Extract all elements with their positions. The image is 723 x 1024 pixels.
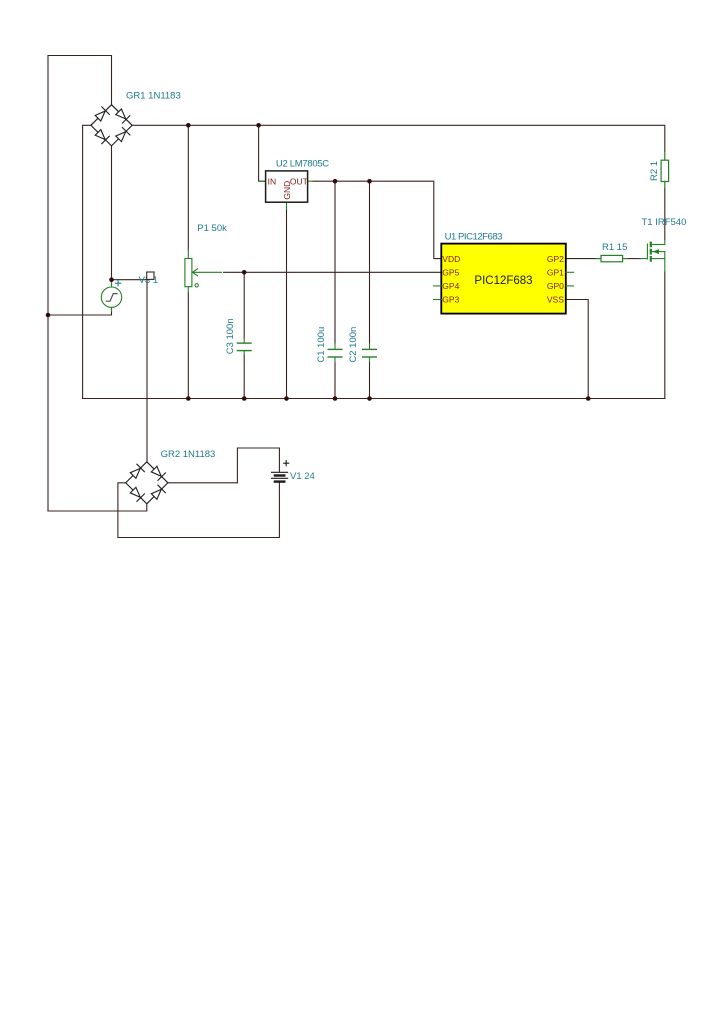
- diode GR1 D-d (bottom to right): [116, 128, 130, 142]
- P1 ccw end circle: [195, 284, 198, 287]
- P1 wiper arrow: [193, 269, 222, 276]
- wire P1 bottom to bottom rail: [187, 293, 189, 399]
- svg-text:GP4: GP4: [442, 281, 459, 291]
- wire U1 GP2 to R1: [566, 258, 596, 260]
- wire R2 bottom to T1 drain: [664, 189, 666, 241]
- junction dot top rail P1: [186, 123, 191, 128]
- svg-text:IN: IN: [268, 177, 277, 187]
- svg-text:PIC12F683: PIC12F683: [474, 275, 532, 287]
- wire U1 VSS to bottom rail: [566, 300, 588, 399]
- wire U2 OUT rail to U1 VDD: [313, 181, 441, 258]
- junction dot OUT rail C1: [333, 179, 338, 184]
- junction dot rail P1: [186, 396, 191, 401]
- capacitor C2: [363, 344, 377, 362]
- junction dot rail C3: [242, 396, 247, 401]
- svg-text:GR2 1N1183: GR2 1N1183: [161, 449, 216, 460]
- wire C2 branch lower: [369, 362, 371, 399]
- junction dot rail C2: [367, 396, 372, 401]
- U1 pin stub GP1: [566, 271, 574, 273]
- wire GR1 bottom to V3 top: [111, 146, 113, 287]
- junction dot rail U2 GND: [284, 396, 289, 401]
- svg-text:VDD: VDD: [442, 254, 460, 264]
- junction dot rail VSS: [586, 396, 591, 401]
- bridge rectifier GR2: [126, 462, 168, 504]
- svg-text:R1 15: R1 15: [602, 242, 627, 253]
- capacitor C3: [237, 338, 251, 356]
- svg-text:VSS: VSS: [547, 295, 564, 305]
- svg-text:GP3: GP3: [442, 295, 459, 305]
- svg-text:U1 PIC12F683: U1 PIC12F683: [445, 232, 503, 243]
- V1 plus sign: [284, 461, 289, 466]
- wire U2 GND down to bottom rail: [286, 209, 288, 399]
- bridge rectifier GR1: [91, 105, 132, 146]
- svg-text:OUT: OUT: [290, 177, 308, 187]
- regulator U2 LM7805C: [260, 171, 313, 209]
- wire C3 branch lower: [243, 355, 245, 399]
- wire T1 source to bottom rail: [664, 272, 666, 399]
- microcontroller U1 PIC12F683: [441, 244, 566, 314]
- wire GR2 right corner to battery plus: [168, 448, 280, 483]
- resistor R2: [661, 152, 669, 189]
- svg-text:GR1 1N1183: GR1 1N1183: [126, 91, 181, 102]
- svg-text:GP2: GP2: [547, 254, 564, 264]
- wire top-left loop from GR1 top corner: [48, 56, 112, 105]
- svg-text:C1 100u: C1 100u: [316, 327, 327, 363]
- diode GR1 D-b (top to right): [116, 109, 130, 123]
- V3 waveform icon: [106, 294, 117, 302]
- V3 plus sign: [116, 281, 121, 286]
- voltage source V3: [101, 280, 121, 311]
- diode GR2 D-d (bottom to right): [151, 485, 165, 499]
- wire P1 top drop from top rail: [187, 125, 189, 250]
- junction dot rail C1: [333, 396, 338, 401]
- wire left vertical x=48: [47, 56, 49, 512]
- svg-text:C2 100n: C2 100n: [348, 327, 359, 363]
- junction dot V3 bottom x=48: [46, 313, 51, 318]
- wire C2 branch upper: [369, 181, 371, 344]
- wire U2 IN drop: [259, 125, 266, 181]
- connector square node: [147, 272, 154, 279]
- wire bottom rail (ground net): [83, 398, 665, 400]
- wire R1 to T1 gate: [628, 258, 640, 260]
- wire C1 branch upper: [334, 181, 336, 344]
- wire P1 wiper to U1 GP5: [224, 271, 442, 273]
- junction dot wiper C3: [242, 270, 247, 275]
- svg-text:U2 LM7805C: U2 LM7805C: [276, 158, 329, 169]
- junction dot V3 top: [109, 277, 114, 282]
- wire C1 branch lower: [334, 362, 336, 399]
- wire top rail from GR1 right corner: [132, 125, 665, 151]
- wire V3 bottom to x=48: [48, 308, 112, 316]
- svg-text:GND: GND: [282, 181, 292, 200]
- diode GR2 D-b (top to right): [151, 466, 165, 480]
- junction dot top rail U2 IN: [256, 123, 261, 128]
- svg-text:GP0: GP0: [547, 281, 564, 291]
- T1 body diode arrow: [653, 249, 659, 254]
- resistor R1: [596, 255, 628, 261]
- diode GR1 D-c (left to bottom): [95, 130, 109, 144]
- MOSFET T1 IRF540: [640, 240, 665, 272]
- wire GR1 left corner down to bottom rail: [83, 125, 91, 398]
- svg-text:R2 1: R2 1: [649, 161, 660, 181]
- capacitor C1: [328, 344, 342, 362]
- wire V3 top branch to connector square: [112, 279, 148, 281]
- junction dot OUT rail C2: [367, 179, 372, 184]
- svg-text:GP5: GP5: [442, 267, 459, 277]
- svg-text:P1 50k: P1 50k: [197, 223, 227, 234]
- diode GR2 D-c (left to bottom): [130, 487, 144, 501]
- U1 pin stub GP0: [566, 285, 574, 287]
- wire connector square down to GR2 top corner: [146, 280, 148, 462]
- svg-text:GP1: GP1: [547, 267, 564, 277]
- wire C3 branch upper: [243, 272, 245, 338]
- wire battery minus loop to GR2 left corner: [118, 482, 280, 538]
- U1 pin stub GP4: [434, 285, 442, 287]
- diode GR2 D-a (left to top): [130, 464, 144, 478]
- svg-text:T1 IRF540: T1 IRF540: [642, 217, 687, 228]
- potentiometer P1: [185, 250, 192, 293]
- svg-text:V1 24: V1 24: [290, 471, 315, 482]
- battery V1: [272, 472, 288, 481]
- diode GR1 D-a (left to top): [95, 107, 109, 121]
- svg-text:C3 100n: C3 100n: [225, 318, 236, 354]
- wire GR2 bottom corner loop y=511: [48, 504, 147, 511]
- U1 pin stub GP3: [434, 299, 442, 301]
